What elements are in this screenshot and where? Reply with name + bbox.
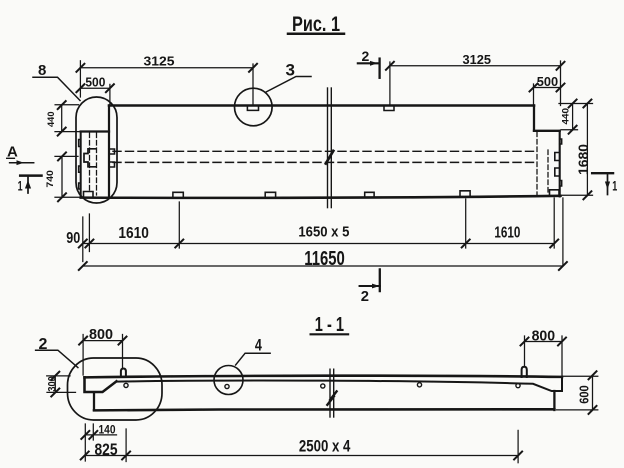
svg-text:500: 500 [537,74,558,89]
svg-text:800: 800 [532,328,556,345]
svg-text:2: 2 [361,289,369,305]
svg-text:1 - 1: 1 - 1 [315,314,344,336]
svg-text:1: 1 [18,179,23,194]
svg-text:4: 4 [255,335,262,354]
svg-text:440: 440 [561,108,571,125]
svg-text:3125: 3125 [144,54,175,69]
svg-text:1650 x 5: 1650 x 5 [298,224,349,241]
svg-text:1610: 1610 [494,224,520,241]
svg-text:140: 140 [99,422,116,436]
svg-text:8: 8 [38,62,46,79]
svg-text:11650: 11650 [304,248,345,270]
svg-text:2: 2 [362,48,370,64]
svg-text:90: 90 [66,230,80,247]
svg-text:1: 1 [612,179,617,194]
svg-text:600: 600 [577,385,591,404]
svg-text:800: 800 [89,326,113,343]
svg-text:300: 300 [47,376,59,391]
svg-text:1610: 1610 [118,225,148,242]
svg-text:440: 440 [46,112,56,128]
svg-text:2500 x 4: 2500 x 4 [299,438,351,456]
svg-text:3: 3 [286,60,295,79]
svg-text:1680: 1680 [575,144,591,175]
svg-text:3125: 3125 [463,52,492,67]
svg-text:740: 740 [45,170,55,188]
svg-text:500: 500 [85,75,105,90]
svg-text:825: 825 [95,441,118,459]
